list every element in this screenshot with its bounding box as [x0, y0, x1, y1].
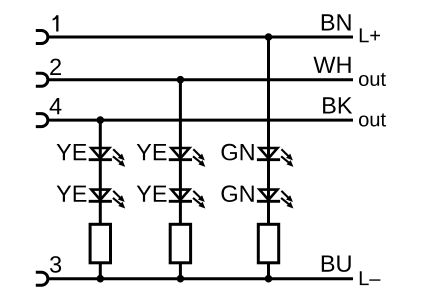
- junction BN rail / column 3: [265, 33, 273, 41]
- LED V4 label YE: [137, 186, 167, 202]
- connector pin 1: [36, 31, 48, 44]
- LED V3 label YE: [137, 144, 167, 160]
- connector pin 2: [36, 73, 48, 86]
- pin 4 number label: [50, 98, 62, 114]
- LED V1 yellow (column 1 upper): [89, 148, 126, 167]
- junction WH rail / column 2: [177, 76, 185, 84]
- net label L+: [360, 28, 380, 42]
- wire pin2 to out (WH rail): [48, 78, 353, 81]
- wire color label BK: [323, 97, 352, 113]
- net label out (WH): [359, 73, 386, 86]
- junction BK rail / column 1: [97, 116, 105, 124]
- wire branch column 2 (WH rail to BU rail): [179, 80, 182, 279]
- LED V2 yellow (column 1 lower): [89, 190, 126, 209]
- LED V4 yellow (column 2 lower): [169, 190, 206, 209]
- wire color label BN: [322, 14, 351, 30]
- junction BU rail / column 3: [265, 275, 273, 283]
- wire color label BU: [322, 256, 351, 272]
- resistor R2 (column 2): [170, 224, 190, 262]
- LED V5 green (column 3 upper): [257, 148, 294, 167]
- wire color label WH: [314, 57, 351, 73]
- LED V5 label GN: [222, 144, 254, 161]
- wire pin4 to out (BK rail): [48, 119, 353, 122]
- wire branch column 3 (BN rail to BU rail): [267, 37, 270, 279]
- LED V6 green (column 3 lower): [257, 190, 294, 209]
- resistor R3 (column 3): [258, 224, 278, 262]
- pin 3 number label: [50, 256, 61, 273]
- resistor R1 (column 1): [90, 224, 110, 262]
- net label L-: [360, 271, 381, 285]
- net label out (BK): [359, 113, 386, 126]
- LED V1 label YE: [57, 144, 87, 160]
- LED V3 yellow (column 2 upper): [169, 148, 206, 167]
- pin 1 number label: [53, 15, 59, 31]
- connector pin 3: [36, 272, 48, 285]
- junction BU rail / column 2: [177, 275, 185, 283]
- junction BU rail / column 1: [97, 275, 105, 283]
- connector pin 4: [36, 114, 48, 127]
- LED V2 label YE: [57, 186, 87, 202]
- wire pin1 to L+ (BN rail): [48, 36, 353, 39]
- wire branch column 1 (BK rail to BU rail): [99, 120, 102, 279]
- LED V6 label GN: [222, 185, 254, 202]
- wire pin3 to L- (BU rail): [48, 277, 353, 280]
- pin 2 number label: [50, 59, 61, 75]
